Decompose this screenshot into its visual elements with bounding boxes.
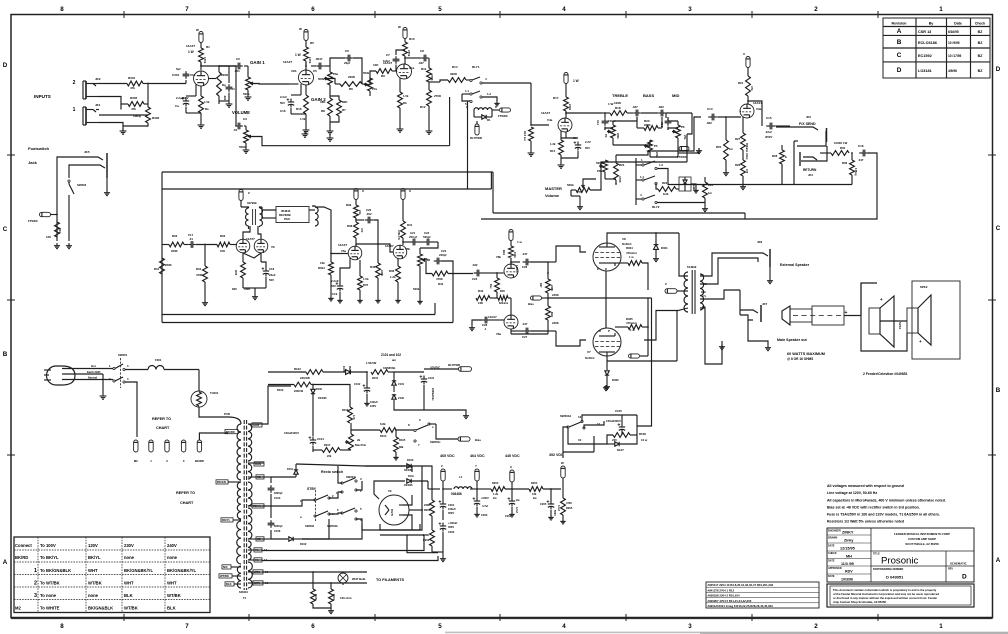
svg-text:BLK: BLK <box>124 593 133 598</box>
svg-text:470K: 470K <box>430 74 434 81</box>
transformer primary taps <box>216 480 228 484</box>
wire jack1 sleeve <box>99 114 148 116</box>
bullet FTSWC relay <box>500 108 511 112</box>
svg-text:R18: R18 <box>615 106 621 110</box>
resistor R107 22k <box>322 448 340 453</box>
svg-text:#925117 2204 10 R2,8,20,31,33,: #925117 2204 10 R2,8,20,31,33,40,47 R10,… <box>708 583 774 587</box>
svg-text:12AX7: 12AX7 <box>488 315 497 319</box>
svg-text:C15: C15 <box>766 116 772 120</box>
resistor R23 8.2k <box>658 187 676 192</box>
wire OT primary bottom <box>606 326 608 328</box>
tube V6 12AT7 a <box>236 239 250 253</box>
svg-text:47k: 47k <box>131 107 136 111</box>
diode D301 bias protect <box>655 233 657 244</box>
resistor R45 820ohm <box>498 296 508 301</box>
capacitor C205 <box>550 501 552 505</box>
svg-text:100uf/100V: 100uf/100V <box>284 431 299 435</box>
speaker plug <box>782 306 790 325</box>
svg-text:10k: 10k <box>320 261 325 265</box>
svg-text:Ra: Ra <box>205 107 209 111</box>
svg-text:Neutral: Neutral <box>88 376 97 380</box>
pot P7a 500k <box>362 83 366 85</box>
svg-text:C6: C6 <box>345 49 349 53</box>
resistor R44 100k <box>510 241 512 247</box>
reverb box left lower <box>161 315 163 323</box>
svg-text:C102: C102 <box>354 382 361 386</box>
svg-text:23pf: 23pf <box>344 61 350 65</box>
svg-text:1.2: 1.2 <box>487 92 491 96</box>
svg-text:.01: .01 <box>233 128 238 132</box>
opto LED <box>679 177 691 191</box>
svg-text:BK/GN&BK/YL: BK/GN&BK/YL <box>167 568 197 573</box>
svg-text:BK/GN: BK/GN <box>217 480 226 484</box>
svg-text:RETURN: RETURN <box>803 168 817 172</box>
svg-text:Ca: Ca <box>175 104 179 108</box>
svg-text:1 W: 1 W <box>188 50 194 54</box>
svg-text:CSR 13: CSR 13 <box>918 30 931 34</box>
svg-text:500k: 500k <box>318 77 325 81</box>
wire B+ to sw304d <box>637 298 652 426</box>
svg-text:12AX7: 12AX7 <box>515 265 519 274</box>
svg-text:47k: 47k <box>360 228 364 233</box>
svg-text:.01: .01 <box>189 237 193 241</box>
bullet W rail <box>561 466 565 478</box>
capacitor C103 6200pf <box>262 476 271 478</box>
wire OT bottom primary <box>644 308 688 340</box>
svg-text:R11: R11 <box>421 67 427 71</box>
svg-text:Z: Z <box>248 191 250 195</box>
svg-text:350V: 350V <box>448 511 454 515</box>
capacitor C15 .22uf <box>766 125 770 127</box>
svg-text:JK2: JK2 <box>95 77 101 81</box>
svg-text:235k: 235k <box>407 50 411 57</box>
svg-text:C: C <box>3 226 8 233</box>
wire gain1 wiper to V2b <box>254 83 289 86</box>
svg-text:.002: .002 <box>366 212 372 216</box>
svg-text:1.5k: 1.5k <box>363 277 369 281</box>
svg-text:25k: 25k <box>683 135 687 140</box>
svg-text:.022: .022 <box>472 263 478 267</box>
svg-text:8: 8 <box>60 623 64 630</box>
svg-text:D105: D105 <box>342 366 345 372</box>
svg-text:DATE: DATE <box>828 575 835 578</box>
svg-text:135pg: 135pg <box>854 168 858 176</box>
svg-text:614909: 614909 <box>687 265 697 269</box>
svg-text:C18: C18 <box>269 267 275 271</box>
svg-text:1: 1 <box>939 623 943 630</box>
wire V4a plate to tone stack <box>565 113 567 115</box>
svg-text:C202: C202 <box>448 530 455 534</box>
svg-text:12K: 12K <box>46 235 51 239</box>
svg-text:A: A <box>996 557 1001 564</box>
svg-text:C23: C23 <box>472 277 478 281</box>
svg-text:+: + <box>880 297 883 302</box>
wire fx bus to reverb <box>481 218 745 220</box>
wire R303 to ground bus <box>123 123 148 126</box>
revision table <box>883 18 990 78</box>
svg-text:100 ohm: 100 ohm <box>340 596 352 600</box>
svg-text:220K: 220K <box>380 270 384 276</box>
svg-text:W: W <box>299 27 302 31</box>
resistor R13 1m <box>529 127 534 141</box>
svg-text:SCOTTSDALE, AZ 85258: SCOTTSDALE, AZ 85258 <box>905 542 939 546</box>
svg-text:P: P <box>608 329 610 333</box>
svg-text:100k: 100k <box>568 104 572 111</box>
svg-text:CHART: CHART <box>180 501 194 505</box>
svg-text:JK6: JK6 <box>757 240 763 244</box>
frame zone ticks left <box>7 154 15 156</box>
resistor R16 1.5k <box>304 95 309 114</box>
svg-text:BiasTrim: BiasTrim <box>355 443 367 447</box>
svg-text:V6: V6 <box>271 245 275 249</box>
svg-text:X: X <box>510 465 512 469</box>
transformer secondary taps <box>252 423 262 427</box>
svg-text:R34: R34 <box>196 267 202 271</box>
svg-text:12/15/95: 12/15/95 <box>840 547 855 551</box>
tube V4a 12AX7 <box>565 111 567 118</box>
wire GRN filament <box>262 571 367 573</box>
svg-text:TITLE: TITLE <box>873 553 880 556</box>
svg-text:Main Speaker out: Main Speaker out <box>777 338 808 342</box>
svg-text:RLYPWR: RLYPWR <box>470 136 482 140</box>
tube V5a 12AX7 <box>348 246 362 260</box>
svg-text:C2: C2 <box>236 57 240 61</box>
svg-text:.0047: .0047 <box>315 57 323 61</box>
resistor R302 47k <box>128 102 144 107</box>
resistor R43 10k <box>476 296 490 301</box>
svg-text:MASTER: MASTER <box>545 186 562 191</box>
svg-text:R107: R107 <box>324 443 331 447</box>
power transformer secondary <box>248 424 252 461</box>
tube V1a <box>404 56 406 64</box>
svg-text:100k: 100k <box>203 57 207 64</box>
svg-text:SW301: SW301 <box>118 353 128 357</box>
svg-text:VOLUME: VOLUME <box>232 110 250 115</box>
wire relay to reverb send <box>467 101 469 189</box>
svg-text:TO FILAMENTS: TO FILAMENTS <box>376 578 404 582</box>
tube V8 6L6GC <box>593 243 621 271</box>
svg-text:B: B <box>3 351 8 358</box>
svg-text:REFER TO: REFER TO <box>176 491 195 495</box>
svg-text:F301: F301 <box>155 358 162 362</box>
svg-text:D10x: D10x <box>408 475 414 478</box>
svg-text:C106: C106 <box>274 529 281 533</box>
svg-text:270K: 270K <box>434 94 442 98</box>
bullet RLYPWR <box>476 121 478 124</box>
svg-text:X: X <box>743 52 745 56</box>
capacitor C5 .0047 <box>305 62 307 66</box>
wire driver plate <box>243 226 250 239</box>
capacitor C13 mid <box>665 113 667 118</box>
svg-text:ENGINEER: ENGINEER <box>828 530 841 533</box>
svg-text:4: 4 <box>562 6 566 13</box>
svg-text:R14: R14 <box>452 65 458 69</box>
svg-text:220K: 220K <box>550 285 554 291</box>
switch SW303 <box>68 180 70 182</box>
svg-text:R42: R42 <box>438 282 444 286</box>
svg-text:.047: .047 <box>418 61 424 65</box>
tube V3a 12AX7 <box>740 104 754 118</box>
svg-text:1.1: 1.1 <box>465 89 469 93</box>
resistor R110 100ohm <box>329 589 334 604</box>
svg-text:1.2k: 1.2k <box>493 492 499 496</box>
svg-text:C103: C103 <box>274 496 281 500</box>
supply node X reverb2 <box>401 189 405 200</box>
svg-text:R23: R23 <box>662 181 668 185</box>
svg-text:R110: R110 <box>332 594 335 600</box>
wire D106 to C104 <box>312 394 314 436</box>
svg-text:6.8k: 6.8k <box>380 422 386 426</box>
svg-text:7: 7 <box>185 6 189 13</box>
cathode V3a R27 R26 <box>742 117 744 133</box>
svg-text:1 W: 1 W <box>608 102 614 106</box>
resistor R28 fx <box>780 150 785 164</box>
svg-text:V6b: V6b <box>496 255 501 259</box>
resistor R31 220k <box>160 258 165 274</box>
svg-text:220pf: 220pf <box>439 253 446 257</box>
svg-text:.022: .022 <box>658 105 664 109</box>
resistor R36 135pg <box>850 160 855 175</box>
tube V2b 12AX7 <box>305 61 307 70</box>
svg-text:SCHEMATIC: SCHEMATIC <box>950 562 967 566</box>
svg-text:2: 2 <box>34 581 37 587</box>
grid leak Rx <box>495 278 500 292</box>
resistor R46 220k tail2 <box>546 306 551 320</box>
capacitor C22 500pf <box>418 241 424 243</box>
svg-text:R25: R25 <box>716 145 722 149</box>
svg-text:1: 1 <box>939 6 943 13</box>
svg-text:.047: .047 <box>522 322 528 326</box>
svg-text:C26: C26 <box>522 265 528 269</box>
svg-text:4.7k: 4.7k <box>352 415 355 420</box>
capacitor C203 4.7uf <box>476 498 478 502</box>
svg-text:TREBLE: TREBLE <box>612 93 628 98</box>
svg-text:500V: 500V <box>553 510 556 516</box>
relay RLY1 coil <box>474 108 492 110</box>
svg-text:Volume: Volume <box>545 193 560 198</box>
ground tone stack <box>690 148 699 153</box>
pot P8 reverb 500k <box>418 254 423 266</box>
svg-text:REFER TO: REFER TO <box>152 417 171 421</box>
svg-text:.047: .047 <box>858 158 864 162</box>
resistor R301 47k <box>127 81 143 86</box>
svg-text:470K: 470K <box>618 176 622 183</box>
svg-text:220K: 220K <box>221 73 229 77</box>
resistor R34 470k <box>203 266 208 282</box>
wire OT primary top <box>679 233 688 276</box>
svg-text:500pf: 500pf <box>423 235 430 239</box>
resistor Ra 1.5k cathode <box>199 96 204 113</box>
svg-text:WHT: WHT <box>124 581 134 586</box>
capacitor C11 150pf <box>604 113 606 118</box>
svg-text:100k 1W: 100k 1W <box>397 230 400 240</box>
svg-text:350V: 350V <box>448 525 454 529</box>
diode D103 top <box>365 465 405 467</box>
svg-text:All voltages measured with res: All voltages measured with respect to gr… <box>827 484 904 488</box>
svg-text:D: D <box>996 66 1001 73</box>
svg-text:50V: 50V <box>331 284 336 288</box>
svg-text:18K: 18K <box>320 100 326 104</box>
svg-text:68k: 68k <box>399 445 404 449</box>
svg-text:C5: C5 <box>313 69 317 73</box>
svg-text:Fuse is T3A/250V in 100 and 12: Fuse is T3A/250V in 100 and 120V models,… <box>827 513 940 517</box>
svg-text:External Speaker: External Speaker <box>780 263 810 267</box>
switch SW304a <box>341 482 343 484</box>
svg-text:To none: To none <box>40 593 57 598</box>
svg-text:1m: 1m <box>708 191 713 195</box>
svg-text:R106: R106 <box>342 408 349 412</box>
resistor R40 220k <box>376 263 381 278</box>
svg-text:#841278 2704 1 R12: #841278 2704 1 R12 <box>708 588 735 592</box>
ground JK6 <box>769 267 771 278</box>
svg-text:GN/: GN/ <box>701 290 706 294</box>
wire to V4a grid <box>530 124 532 126</box>
svg-text:X: X <box>409 189 411 193</box>
svg-text:6: 6 <box>311 623 315 630</box>
svg-text:C19: C19 <box>332 292 338 296</box>
wire C27 to V7 grid <box>556 331 586 346</box>
svg-text:RLY1: RLY1 <box>472 65 480 69</box>
svg-text:C201: C201 <box>448 503 455 507</box>
svg-text:ZINKY: ZINKY <box>842 531 854 535</box>
svg-text:250k: 250k <box>616 133 620 139</box>
svg-text:E: E <box>785 155 787 159</box>
frame zone ticks bottom <box>123 614 125 621</box>
svg-text:#9901231021 1meg 8 R13,22,25,R: #9901231021 1meg 8 R13,22,25,R28,29,43,4… <box>708 604 774 608</box>
svg-text:120V: 120V <box>88 543 98 548</box>
svg-text:RLYPWR: RLYPWR <box>448 363 460 367</box>
wire driver to pan <box>262 207 276 210</box>
capacitor C18 22uf <box>260 253 262 262</box>
ground C28 <box>471 325 473 328</box>
wire V7 cathode diode D302 <box>606 356 608 370</box>
svg-text:P5: P5 <box>654 144 658 148</box>
svg-text:1.3k: 1.3k <box>550 142 556 146</box>
svg-text:BZ: BZ <box>978 30 984 34</box>
svg-text:220K: 220K <box>424 503 430 507</box>
resistor R108 220 10w <box>613 433 630 438</box>
svg-text:.1: .1 <box>484 327 487 331</box>
supply node W for V2 <box>304 30 308 41</box>
svg-text:1.3k: 1.3k <box>390 275 396 279</box>
svg-text:R27: R27 <box>735 137 741 141</box>
svg-text:5pf: 5pf <box>176 67 181 71</box>
svg-text:R45: R45 <box>500 289 505 293</box>
svg-text:JK7: JK7 <box>762 302 768 306</box>
svg-text:WT/BK: WT/BK <box>220 574 229 578</box>
svg-text:230V: 230V <box>124 543 134 548</box>
svg-text:D: D <box>3 62 8 69</box>
svg-text:DATE: DATE <box>828 545 835 548</box>
svg-text:C11: C11 <box>596 120 600 125</box>
svg-text:220/1W: 220/1W <box>294 389 304 393</box>
svg-text:of the Fender Musical Instrume: of the Fender Musical Instruments Corpor… <box>833 592 939 596</box>
svg-text:D: D <box>605 267 607 271</box>
svg-text:R36: R36 <box>842 161 848 165</box>
ground JK5 <box>106 178 108 190</box>
svg-text:P4: P4 <box>604 134 608 138</box>
svg-text:1N4006: 1N4006 <box>404 469 413 472</box>
resistor R33 220k <box>169 242 184 247</box>
ground input <box>122 128 124 131</box>
svg-text:6L6GC: 6L6GC <box>585 356 596 360</box>
capacitor C12 .022 <box>658 112 661 114</box>
svg-text:R201: R201 <box>424 508 431 512</box>
capacitor C26 .047 <box>510 262 512 264</box>
wire screen Y riser <box>647 298 649 356</box>
relay RLY1 contacts b <box>470 93 472 95</box>
svg-text:Y: Y <box>475 464 477 468</box>
ground footswitch <box>56 243 58 246</box>
ground bus stubs mid <box>304 131 306 134</box>
svg-text:220/1W: 220/1W <box>300 376 310 380</box>
tube V9 GZ34 <box>379 495 409 525</box>
wire standby wiring <box>329 492 342 498</box>
resistor R12 270k <box>427 90 432 106</box>
svg-text:500k: 500k <box>413 287 420 291</box>
svg-text:CUSTOM AMP SHOP: CUSTOM AMP SHOP <box>908 537 936 541</box>
svg-text:Z: Z <box>665 282 667 286</box>
resistor R105 68k <box>394 437 399 452</box>
svg-text:6: 6 <box>311 6 315 13</box>
cathode V5b R36b 1.5k <box>397 258 399 266</box>
fx sleeve wire down <box>793 141 795 185</box>
ground AC earth <box>102 374 104 393</box>
svg-text:WT/BK: WT/BK <box>167 593 181 598</box>
svg-text:All capacitors in MicroFarads,: All capacitors in MicroFarads, 400 V min… <box>827 499 946 503</box>
svg-text:Z101: Z101 <box>398 382 405 386</box>
wire rectifier box right <box>380 466 422 530</box>
tube V6a PI2 <box>504 315 518 329</box>
svg-text:47k: 47k <box>750 86 754 91</box>
reverb recovery coil <box>315 207 318 226</box>
resistor R25 1m <box>724 140 729 160</box>
svg-text:1N4006: 1N4006 <box>318 397 327 400</box>
svg-text:R104: R104 <box>380 434 387 438</box>
svg-text:R9: R9 <box>381 74 385 78</box>
resistor R202 220k bleed2 <box>430 530 435 546</box>
resistor R10 235k <box>404 39 406 43</box>
resistor R104 6.8k <box>380 428 396 433</box>
svg-text:R8: R8 <box>321 109 325 113</box>
voltage selector bullets <box>134 440 138 452</box>
resistor R305 470ohm screen <box>628 325 642 330</box>
svg-text:1 w: 1 w <box>629 255 634 259</box>
svg-text:Resistors 1/2 Watt 5% unless o: Resistors 1/2 Watt 5% unless otherwise n… <box>827 520 904 524</box>
svg-text:Rxx: Rxx <box>489 284 492 289</box>
svg-text:Zinky: Zinky <box>844 539 853 543</box>
AC plug <box>47 366 76 385</box>
capacitor C104 100uf <box>312 437 314 441</box>
speaker SPK1 <box>861 283 877 316</box>
svg-text:220K: 220K <box>552 321 560 325</box>
svg-text:B: B <box>897 39 902 46</box>
svg-text:4700: 4700 <box>566 501 572 505</box>
wire V5a plate to V5b <box>356 244 378 246</box>
supply node W for V4a <box>564 73 568 84</box>
svg-text:WHT Bulb: WHT Bulb <box>352 577 366 581</box>
svg-text:6/16/95: 6/16/95 <box>948 30 959 34</box>
capacitor C8 .047 <box>404 57 406 59</box>
reverb pan box <box>276 207 309 223</box>
svg-text:220K: 220K <box>171 249 178 253</box>
svg-text:1.3: 1.3 <box>659 163 663 167</box>
svg-text:82K: 82K <box>342 100 348 104</box>
svg-text:R100: R100 <box>277 388 284 392</box>
svg-text:BZ: BZ <box>978 69 984 73</box>
svg-text:1.5k: 1.5k <box>300 117 306 121</box>
svg-text:CHECK: CHECK <box>828 552 837 555</box>
